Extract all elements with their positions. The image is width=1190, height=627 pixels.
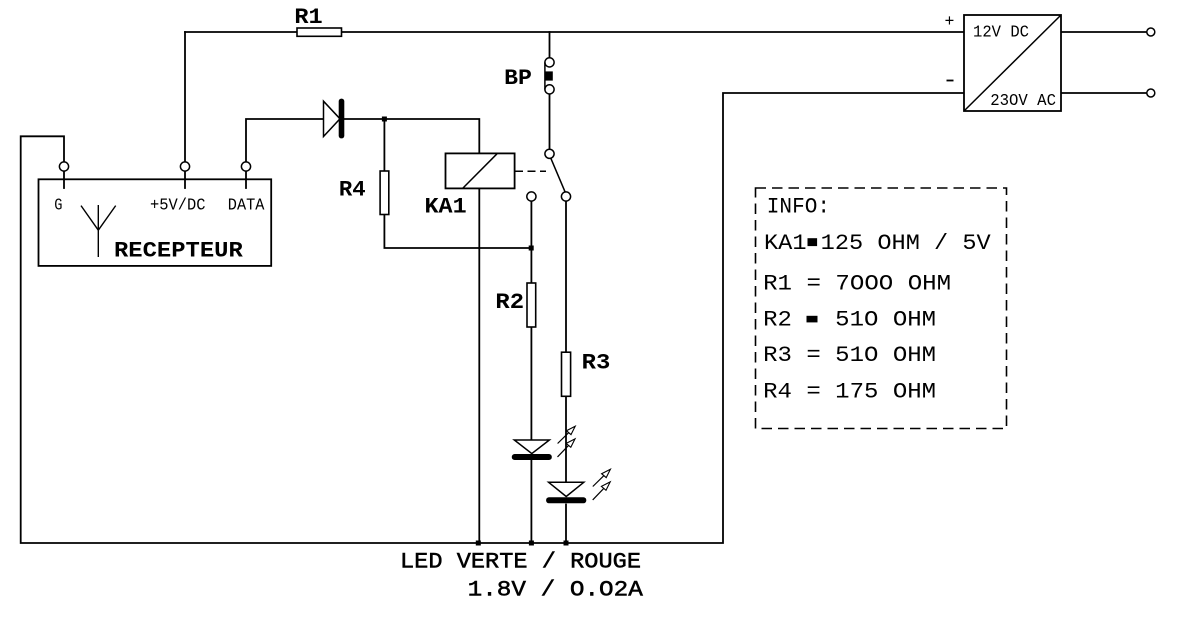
svg-text:R4 = 175 OHM: R4 = 175 OHM [763,380,936,405]
dashed mechanical link KA1 to contact [515,170,546,172]
svg-text:DATA: DATA [228,196,265,215]
output terminal + [1147,28,1155,36]
svg-text:12V DC: 12V DC [973,23,1029,42]
wire LED2 to bottom rail [565,505,567,544]
resistor R1 [294,5,341,36]
svg-text:R3 = 51O OHM: R3 = 51O OHM [763,343,936,368]
wire right contact to R3 top [565,201,567,352]
terminal +5V/DC [180,162,189,171]
wire R4 bottom to node B [384,215,531,249]
supply - label [947,80,954,82]
relay coil KA1 [425,153,515,219]
svg-text:R1 = 7OOO OHM: R1 = 7OOO OHM [763,272,951,297]
relay contact switch [527,149,571,201]
wire top rail right of R1 to supply + [342,31,965,33]
svg-text:INFO:: INFO: [767,195,830,220]
svg-text:23OV AC: 23OV AC [990,91,1056,110]
svg-text:LED VERTE / ROUGE: LED VERTE / ROUGE [400,549,641,574]
resistor R4 [339,171,389,215]
svg-text:G: G [54,196,62,215]
svg-text:1.8V / O.O2A: 1.8V / O.O2A [468,577,644,602]
svg-text:KA1 125 OHM / 5V: KA1 125 OHM / 5V [764,231,992,256]
svg-text:R2: R2 [495,290,524,315]
wire KA1 bottom to bottom rail [478,188,480,543]
terminal G [59,162,68,171]
svg-text:KA1: KA1 [425,194,467,219]
power supply U1 12V DC / 230V AC [964,15,1061,111]
wire top rail left of R1 [185,31,297,33]
LED D2 green [512,426,575,460]
wire R2 bottom to LED1 [530,327,532,440]
wire DATA stub into receiver [245,171,247,188]
bottom rail junction under LED1 [529,541,534,546]
svg-text:RECEPTEUR: RECEPTEUR [114,239,244,264]
wire left contact to R2 top through node B [530,201,532,283]
wire LED1 to bottom rail [530,460,532,544]
wire +5V/DC riser [184,32,186,162]
LED D3 red [546,469,610,503]
wire BP top feed [549,32,551,58]
push button BP [504,58,554,94]
svg-text:R1: R1 [294,5,322,30]
wire supply + output to terminal [1061,31,1146,33]
diode D1 [324,99,345,139]
wire G loop: up, left, down left rail, bottom rail, right riser to supply - [21,93,964,543]
svg-text:+: + [945,12,955,31]
wire node A to R4 top [383,119,385,171]
info box dashed border [756,188,1007,429]
bottom rail junction under KA1 [476,541,481,546]
wire R3 bottom to LED2 [565,396,567,482]
terminal DATA [241,162,250,171]
bottom rail junction under LED2 [564,541,569,546]
receiver box RECEPTEUR [39,179,272,266]
node A junction dot [382,117,387,122]
resistor R2 [495,283,535,327]
output terminal - [1147,89,1155,97]
node B junction dot [529,246,534,251]
wire supply - output to terminal [1061,92,1146,94]
wire +5V/DC stub into receiver [184,171,186,188]
svg-text:R3: R3 [582,351,611,376]
svg-text:+5V/DC: +5V/DC [150,196,206,215]
wire BP bottom to relay contact common [549,94,551,149]
wire diode cathode to KA1 top [344,119,479,153]
svg-text:R4: R4 [339,178,366,203]
svg-text:R2 51O OHM: R2 51O OHM [763,308,936,333]
wire G stub into receiver [63,171,65,188]
resistor R3 [562,351,611,397]
wire DATA riser to diode anode [246,119,324,162]
antenna [81,205,116,257]
svg-text:BP: BP [504,66,532,91]
